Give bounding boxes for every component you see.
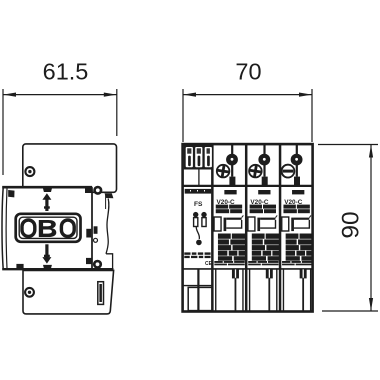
svg-text:90: 90 bbox=[338, 211, 365, 238]
surge module 1 top bbox=[217, 144, 238, 185]
surge module 1 body bbox=[214, 190, 246, 311]
up arrow stem bbox=[45, 199, 48, 211]
front view outer body bbox=[183, 144, 313, 311]
FS column terminal block bbox=[184, 145, 213, 170]
DIN rail clip spring line bbox=[105, 194, 107, 209]
FS column label bar bbox=[185, 189, 212, 194]
module top-left clip wedge bbox=[8, 190, 14, 197]
top arrow tab bbox=[43, 189, 52, 193]
FS terminal symbol left bbox=[193, 212, 198, 217]
FS small text lines bbox=[184, 252, 190, 254]
arrowhead left 70 bbox=[183, 93, 196, 97]
extension line top of 90 bbox=[318, 144, 378, 146]
module right side rear wall bbox=[91, 189, 93, 270]
surge module 3 body bbox=[282, 190, 314, 311]
arrowhead right 61.5 bbox=[104, 93, 117, 97]
extension line bottom of 90 bbox=[322, 310, 378, 312]
FS wire bbox=[196, 227, 199, 239]
label band divider bbox=[183, 185, 313, 187]
extension line right of 61.5 bbox=[116, 89, 118, 136]
arrowhead bottom 90 bbox=[369, 298, 373, 311]
up arrow crossbar bbox=[44, 206, 50, 208]
module divider 3 bbox=[279, 144, 282, 311]
FS wire ball bbox=[196, 240, 202, 246]
OBO letter O1 bbox=[22, 220, 35, 236]
up arrow head bbox=[42, 193, 51, 200]
OBO label plate outer bbox=[16, 214, 81, 242]
surge module 3 top bbox=[281, 144, 302, 185]
dimension line 61.5 bbox=[3, 94, 117, 96]
side view top housing screw bbox=[25, 167, 34, 176]
rear middle knob bbox=[94, 226, 98, 234]
rear middle latch block bbox=[86, 229, 91, 238]
FS column stem bbox=[198, 169, 200, 186]
FS terminal window 2 bbox=[195, 147, 202, 167]
svg-text:70: 70 bbox=[235, 59, 261, 85]
svg-text:61.5: 61.5 bbox=[43, 59, 89, 85]
side view top housing bbox=[23, 144, 117, 192]
svg-text:CE: CE bbox=[205, 261, 213, 267]
bottom arrow tab bbox=[43, 265, 52, 269]
DIN rail top hook bbox=[105, 193, 114, 198]
extension line right of 70 bbox=[311, 89, 313, 142]
arrowhead right 70 bbox=[299, 93, 312, 97]
OBO letter B bbox=[39, 220, 57, 237]
FS bottom box bbox=[188, 287, 212, 310]
module inner front wall line bbox=[5, 189, 8, 269]
rear top black block bbox=[85, 187, 92, 193]
extension line left of 70 bbox=[182, 89, 184, 142]
dimension 90 bbox=[318, 145, 378, 312]
rear bottom screw bbox=[93, 260, 102, 269]
OBO label plate inner frame bbox=[19, 217, 77, 238]
side view bottom housing bbox=[23, 270, 114, 314]
arrowhead left 61.5 bbox=[3, 93, 16, 97]
down arrow crossbar bbox=[44, 255, 50, 257]
terminal zone divider bbox=[183, 268, 313, 270]
FS terminal window 3 bbox=[205, 147, 212, 167]
rear bottom black block bbox=[86, 258, 92, 264]
svg-text:FS: FS bbox=[194, 201, 203, 208]
arrowhead top 90 bbox=[369, 145, 373, 158]
FS terminal window 1 bbox=[186, 147, 193, 167]
FS terminal symbol right bbox=[201, 212, 206, 217]
bottom housing slot bbox=[98, 282, 104, 305]
module top edge (thick) bbox=[2, 186, 92, 189]
FS bottom center line bbox=[197, 269, 199, 312]
plug-in module body (side) bbox=[2, 188, 92, 270]
module divider 2 bbox=[245, 144, 248, 311]
OBO letter O2 bbox=[61, 220, 74, 236]
bottom housing screw bbox=[25, 288, 34, 297]
DIN rail profile curve bbox=[106, 199, 109, 254]
dimension line 90 bbox=[370, 145, 372, 312]
module divider 1 bbox=[211, 144, 214, 311]
surge module 2 body bbox=[248, 190, 280, 311]
module bottom edge (thick) bbox=[2, 268, 113, 270]
extension line left of 61.5 bbox=[2, 89, 4, 175]
dimension 70 bbox=[183, 89, 312, 142]
dimension line 70 bbox=[183, 94, 312, 96]
module bottom-left clip wedge bbox=[16, 264, 23, 270]
down arrow head bbox=[42, 257, 51, 264]
DIN rail foot step bbox=[106, 254, 113, 270]
FS bottom horizontal line bbox=[183, 285, 213, 287]
module 3 slotted screw cover bbox=[282, 165, 295, 178]
down arrow stem bbox=[45, 244, 48, 258]
surge module 2 top bbox=[249, 144, 270, 185]
dimension 61.5 bbox=[3, 89, 117, 175]
rear middle small screw bbox=[94, 238, 98, 242]
rear top screw bbox=[93, 186, 102, 195]
